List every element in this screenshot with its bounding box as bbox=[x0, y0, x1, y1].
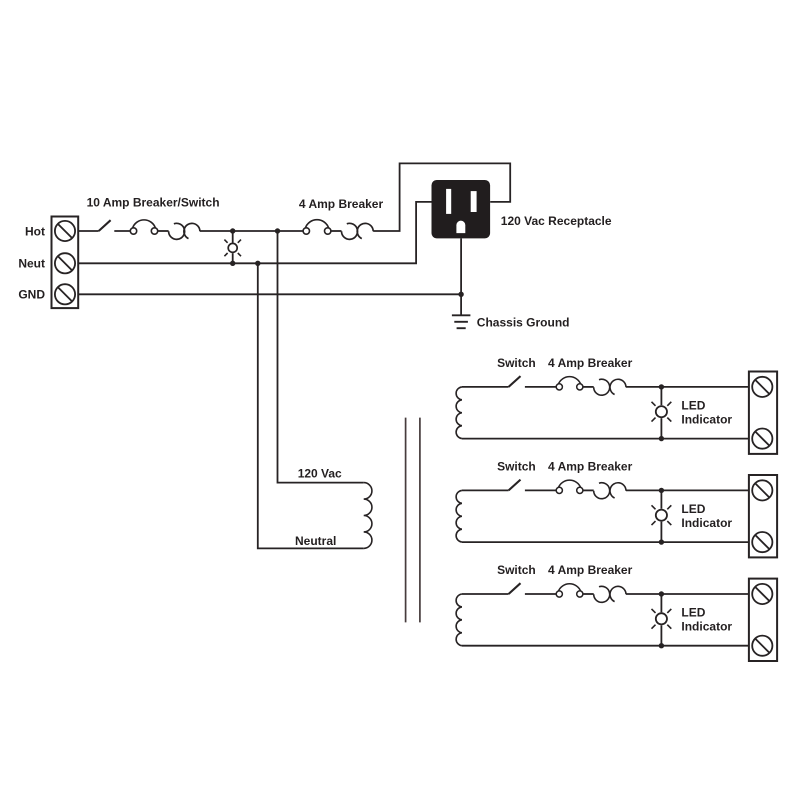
svg-text:4 Amp Breaker: 4 Amp Breaker bbox=[548, 459, 633, 473]
screw terminal TB4-2 bbox=[752, 636, 772, 656]
node LED1 bottom tap bbox=[659, 436, 664, 441]
switch SW4 blade bbox=[509, 583, 521, 594]
transformer T1 core bbox=[406, 418, 420, 623]
wire SW3 to breaker CB4 bbox=[525, 489, 556, 491]
wire TB1 GND to receptacle ground junction bbox=[78, 293, 461, 295]
label Indicator (circuit 2) bbox=[681, 516, 732, 530]
breaker CB2 contact hook right bbox=[357, 223, 373, 238]
breaker CB1 contact hook right bbox=[184, 223, 200, 238]
terminal block TB2 bbox=[749, 372, 777, 454]
svg-text:LED: LED bbox=[681, 399, 705, 413]
wire CB1 coil to CB1 contacts bbox=[158, 230, 169, 232]
pilot lamp DS1 rays bbox=[224, 240, 241, 257]
breaker CB2 coil arc bbox=[305, 220, 328, 229]
svg-text:Hot: Hot bbox=[25, 224, 45, 238]
label 4 Amp Breaker (circuit 2) bbox=[548, 459, 633, 473]
label Neut bbox=[18, 257, 45, 271]
label GND bbox=[18, 288, 45, 302]
svg-text:Indicator: Indicator bbox=[681, 412, 732, 426]
wire LED1 to bottom wire bbox=[660, 418, 662, 438]
wire lamp DS1 to neutral bbox=[232, 253, 234, 263]
label 10 Amp Breaker/Switch bbox=[87, 195, 220, 209]
screw terminal TB3-2 bbox=[752, 532, 772, 552]
svg-text:Neutral: Neutral bbox=[295, 534, 336, 548]
label LED (circuit 1) bbox=[681, 399, 705, 413]
receptacle J1 ground hole bbox=[456, 221, 465, 233]
wire receptacle ground drop bbox=[460, 238, 462, 315]
breaker CB5 contact hook left bbox=[594, 586, 610, 602]
wire TB1 Hot to switch SW1 bbox=[78, 230, 99, 232]
screw terminal TB2-1 bbox=[752, 377, 772, 397]
wire top tap to LED3 bbox=[660, 594, 662, 612]
wire T1 primary bottom (Neutral) return bbox=[258, 263, 364, 548]
breaker CB5 coil arc bbox=[558, 584, 581, 592]
node LED3 bottom tap bbox=[659, 643, 664, 648]
wire SW1 to breaker CB1 bbox=[114, 230, 130, 232]
breaker CB1 coil left circle bbox=[130, 228, 136, 234]
svg-text:4 Amp Breaker: 4 Amp Breaker bbox=[548, 356, 633, 370]
node LED2 bottom tap bbox=[659, 539, 664, 544]
wire CB3 to terminal block TB2 bbox=[626, 386, 749, 388]
breaker CB5 coil right circle bbox=[577, 591, 583, 597]
terminal block TB1 (panel input) bbox=[52, 217, 79, 309]
label 120 Vac Receptacle bbox=[501, 214, 612, 228]
svg-text:Chassis Ground: Chassis Ground bbox=[477, 315, 570, 329]
svg-text:10 Amp Breaker/Switch: 10 Amp Breaker/Switch bbox=[87, 195, 220, 209]
LED indicator LED3 rays bbox=[652, 609, 672, 629]
svg-text:120 Vac: 120 Vac bbox=[298, 467, 342, 481]
receptacle J1 hot slot bbox=[471, 191, 477, 212]
wire CB2 to receptacle hot (up and over) bbox=[373, 163, 510, 231]
node neutral tap for transformer T1 primary bbox=[255, 261, 260, 266]
node hot tap for pilot lamp DS1 bbox=[230, 228, 235, 233]
label Hot bbox=[25, 224, 45, 238]
LED indicator LED3 bbox=[656, 613, 667, 624]
switch SW3 blade bbox=[509, 480, 521, 491]
wire CB2 coil to CB2 contacts bbox=[331, 230, 342, 232]
breaker CB2 coil left circle bbox=[303, 228, 309, 234]
breaker CB4 coil right circle bbox=[577, 487, 583, 493]
wire S2 bottom to terminal block TB3 bbox=[462, 541, 749, 543]
svg-text:4 Amp Breaker: 4 Amp Breaker bbox=[299, 197, 384, 211]
breaker CB1 coil arc bbox=[133, 220, 156, 228]
node neutral tap for pilot lamp DS1 bbox=[230, 261, 235, 266]
breaker CB3 coil left circle bbox=[556, 384, 562, 390]
svg-text:LED: LED bbox=[681, 606, 705, 620]
svg-text:GND: GND bbox=[18, 288, 45, 302]
screw terminal TB1-2 Neut bbox=[55, 253, 75, 273]
wire CB4 to terminal block TB3 bbox=[626, 489, 749, 491]
label Switch (circuit 2) bbox=[497, 459, 536, 473]
label LED (circuit 2) bbox=[681, 502, 705, 516]
wire LED3 to bottom wire bbox=[660, 625, 662, 645]
breaker CB4 contact hook left bbox=[594, 483, 610, 499]
terminal block TB3 bbox=[749, 475, 777, 557]
svg-text:120 Vac Receptacle: 120 Vac Receptacle bbox=[501, 214, 612, 228]
label Indicator (circuit 1) bbox=[681, 412, 732, 426]
svg-text:Indicator: Indicator bbox=[681, 620, 732, 634]
receptacle J1 body (120 Vac receptacle) bbox=[432, 180, 491, 238]
wire LED2 to bottom wire bbox=[660, 522, 662, 542]
wire top tap to LED2 bbox=[660, 490, 662, 508]
breaker CB3 coil arc bbox=[558, 377, 581, 385]
wire CB5 coil to contacts bbox=[583, 593, 594, 595]
wire hot to lamp DS1 bbox=[232, 231, 234, 243]
transformer T1 primary winding bbox=[364, 483, 372, 549]
wire top tap to LED1 bbox=[660, 387, 662, 405]
wire SW4 to breaker CB5 bbox=[525, 593, 556, 595]
node LED1 top tap bbox=[659, 384, 664, 389]
LED indicator LED2 bbox=[656, 510, 667, 521]
breaker CB5 contact hook right bbox=[610, 586, 626, 601]
terminal block TB4 bbox=[749, 579, 777, 661]
screw terminal TB4-1 bbox=[752, 584, 772, 604]
breaker CB1 coil right circle bbox=[151, 228, 157, 234]
node hot tap for transformer T1 primary bbox=[275, 228, 280, 233]
label Switch (circuit 3) bbox=[497, 563, 536, 577]
wire S3 bottom to terminal block TB4 bbox=[462, 645, 749, 647]
transformer T1 secondary winding S2 bbox=[456, 490, 462, 542]
svg-text:Neut: Neut bbox=[18, 257, 45, 271]
chassis ground symbol bbox=[452, 315, 471, 328]
breaker CB4 contact hook right bbox=[610, 483, 626, 498]
wire S2 top to switch SW3 bbox=[462, 489, 509, 491]
screw terminal TB3-1 bbox=[752, 480, 772, 500]
svg-text:4 Amp Breaker: 4 Amp Breaker bbox=[548, 563, 633, 577]
label 4 Amp Breaker (circuit 1) bbox=[548, 356, 633, 370]
breaker CB2 contact hook left bbox=[341, 223, 357, 239]
svg-text:Indicator: Indicator bbox=[681, 516, 732, 530]
wire hot to T1 primary top (120 Vac) bbox=[278, 231, 364, 483]
label 4 Amp Breaker bbox=[299, 197, 384, 211]
svg-text:Switch: Switch bbox=[497, 459, 536, 473]
node LED3 top tap bbox=[659, 591, 664, 596]
breaker CB4 coil arc bbox=[558, 480, 581, 488]
breaker CB2 coil right circle bbox=[325, 228, 331, 234]
wire S1 bottom to terminal block TB2 bbox=[462, 438, 749, 440]
node ground junction bbox=[458, 292, 463, 297]
switch SW1 blade (10A breaker/switch) bbox=[99, 220, 111, 231]
label 120 Vac bbox=[298, 467, 342, 481]
breaker CB1 contact hook left bbox=[169, 223, 185, 239]
label 4 Amp Breaker (circuit 3) bbox=[548, 563, 633, 577]
label Indicator (circuit 3) bbox=[681, 620, 732, 634]
breaker CB3 contact hook right bbox=[610, 379, 626, 394]
wire SW2 to breaker CB3 bbox=[525, 386, 556, 388]
receptacle J1 neutral slot bbox=[446, 189, 451, 214]
label LED (circuit 3) bbox=[681, 606, 705, 620]
label Chassis Ground bbox=[477, 315, 570, 329]
transformer T1 secondary winding S1 bbox=[456, 387, 462, 439]
wire S1 top to switch SW2 bbox=[462, 386, 509, 388]
LED indicator LED2 rays bbox=[652, 505, 672, 525]
svg-text:LED: LED bbox=[681, 502, 705, 516]
wire S3 top to switch SW4 bbox=[462, 593, 509, 595]
breaker CB3 coil right circle bbox=[577, 384, 583, 390]
wire CB4 coil to contacts bbox=[583, 489, 594, 491]
svg-text:Switch: Switch bbox=[497, 563, 536, 577]
pilot lamp DS1 bbox=[228, 243, 237, 252]
screw terminal TB2-2 bbox=[752, 429, 772, 449]
screw terminal TB1-1 Hot bbox=[55, 221, 75, 241]
LED indicator LED1 rays bbox=[652, 402, 672, 422]
switch SW2 blade bbox=[509, 376, 521, 387]
breaker CB5 coil left circle bbox=[556, 591, 562, 597]
wire hot bus CB1 to CB2 bbox=[200, 230, 303, 232]
screw terminal TB1-3 GND bbox=[55, 284, 75, 304]
transformer T1 secondary winding S3 bbox=[456, 594, 462, 646]
svg-text:Switch: Switch bbox=[497, 356, 536, 370]
wire CB5 to terminal block TB4 bbox=[626, 593, 749, 595]
label Neutral bbox=[295, 534, 336, 548]
breaker CB3 contact hook left bbox=[594, 379, 610, 395]
wire TB1 Neut to receptacle neutral bbox=[78, 202, 432, 263]
breaker CB4 coil left circle bbox=[556, 487, 562, 493]
LED indicator LED1 bbox=[656, 406, 667, 417]
label Switch (circuit 1) bbox=[497, 356, 536, 370]
node LED2 top tap bbox=[659, 488, 664, 493]
wire CB3 coil to contacts bbox=[583, 386, 594, 388]
